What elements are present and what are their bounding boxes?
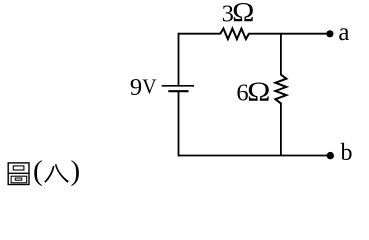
caption: CJK character BA (eight) left stroke <box>45 166 54 182</box>
wire: top wire, segment from resistor R1 to node junction <box>248 33 282 35</box>
resistor R2 (6 ohm) vertical zigzag <box>275 75 286 104</box>
caption: bottom outer box of TU <box>11 176 27 183</box>
resistor R1 (3 ohm) zigzag <box>220 29 249 40</box>
wire: bottom wire from bottom-left corner to terminal b <box>179 155 331 157</box>
battery V1 negative plate (short thick) <box>168 90 188 92</box>
svg-text:Ω: Ω <box>232 0 254 27</box>
svg-text:a: a <box>338 19 349 46</box>
wire: middle branch upper segment from top junction to resistor R2 <box>280 34 282 76</box>
terminal b dot <box>327 152 334 159</box>
svg-text:9: 9 <box>130 74 142 101</box>
svg-text:V: V <box>142 75 157 99</box>
wire: left wire upper segment from top-left corner down to battery <box>178 33 180 86</box>
svg-text:b: b <box>341 140 353 166</box>
caption: bottom inner box of TU <box>15 178 22 180</box>
caption figure-8: CJK character TU (drawing) outer box <box>8 163 29 185</box>
svg-text:): ) <box>71 155 81 187</box>
caption: middle horizontal stroke of TU <box>9 172 29 174</box>
svg-text:Ω: Ω <box>247 77 270 107</box>
wire: top wire, segment from junction to terminal a <box>281 33 330 35</box>
terminal a dot <box>326 30 333 37</box>
wire: left wire lower segment from battery down to bottom-left corner <box>178 91 180 156</box>
svg-text:(: ( <box>33 155 43 187</box>
battery V1 positive plate (long) <box>162 85 194 87</box>
wire: middle branch lower segment from resistor R2 to bottom wire <box>280 103 282 156</box>
caption: inner top small box of TU <box>13 166 24 170</box>
wire: top wire, left segment from top-left corner to resistor R1 <box>179 33 221 35</box>
caption: CJK character BA right stroke <box>55 164 69 183</box>
